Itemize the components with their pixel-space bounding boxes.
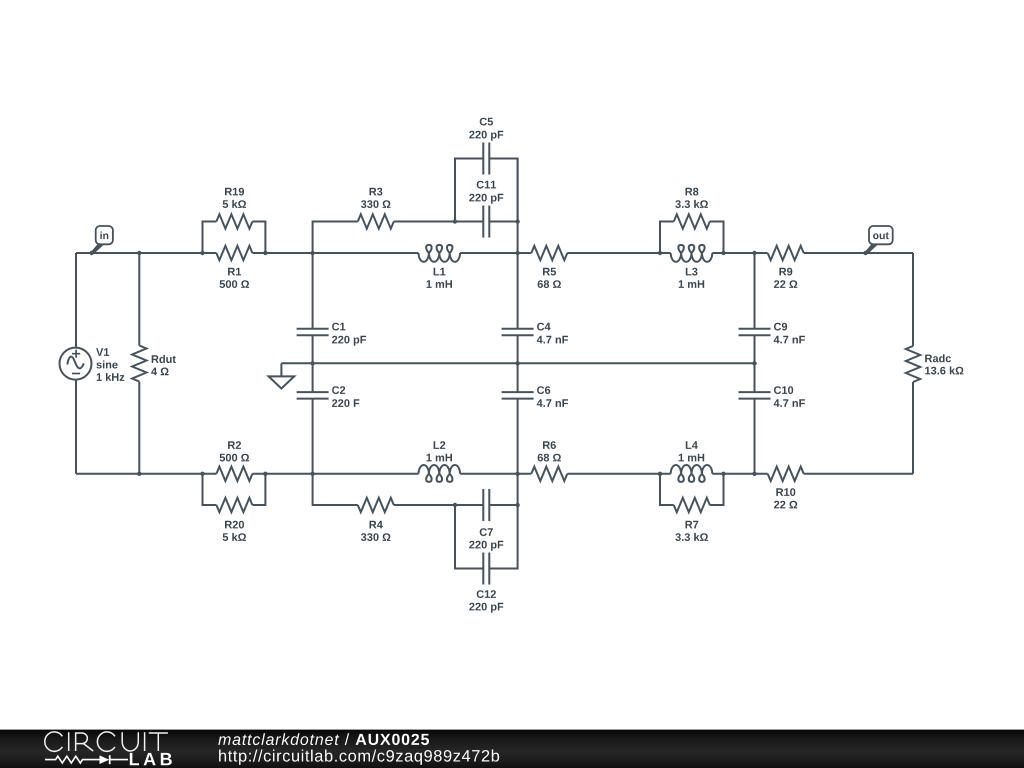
resistor R2 bbox=[216, 467, 252, 481]
label R5 68 Ω bbox=[538, 268, 561, 288]
wire bbox=[804, 252, 913, 254]
wire bbox=[460, 473, 531, 475]
label C7 220 pF bbox=[469, 528, 503, 551]
wire bbox=[489, 505, 517, 569]
junction bbox=[310, 472, 314, 476]
junction bbox=[200, 251, 204, 255]
CircuitLab logo bbox=[45, 732, 172, 765]
label R20 5 kΩ bbox=[223, 521, 246, 541]
junction bbox=[721, 472, 725, 476]
label R9 22 Ω bbox=[774, 268, 797, 288]
wire bbox=[660, 222, 674, 254]
ground bbox=[269, 363, 295, 388]
junction bbox=[515, 361, 519, 365]
junction bbox=[263, 251, 267, 255]
capacitor C2 bbox=[297, 392, 329, 399]
resistor R3 bbox=[358, 214, 394, 228]
wire bbox=[489, 221, 517, 223]
resistor Radc bbox=[906, 346, 920, 382]
wire bbox=[912, 253, 914, 346]
bar title mattclarkdotnet / AUX0025 bbox=[218, 733, 429, 745]
junction bbox=[310, 251, 314, 255]
capacitor C5 bbox=[483, 143, 489, 175]
wire bbox=[76, 252, 216, 254]
wire bbox=[252, 222, 265, 254]
wire bbox=[252, 252, 418, 254]
label C12 220 pF bbox=[469, 590, 503, 613]
junction bbox=[863, 251, 867, 255]
label C5 220 pF bbox=[469, 118, 503, 141]
resistor R6 bbox=[531, 467, 567, 481]
resistor R4 bbox=[358, 498, 394, 512]
wire bbox=[489, 159, 517, 222]
wire bbox=[710, 222, 724, 254]
label L1 1 mH bbox=[427, 268, 453, 288]
capacitor C6 bbox=[502, 392, 534, 399]
capacitor C7 bbox=[483, 489, 489, 521]
resistor R10 bbox=[768, 467, 804, 481]
wire bbox=[394, 221, 484, 223]
wire bbox=[754, 399, 756, 474]
label L2 1 mH bbox=[427, 441, 453, 461]
wire bbox=[567, 252, 670, 254]
wire bbox=[76, 473, 216, 475]
wire bbox=[138, 382, 140, 474]
inductor L3 bbox=[671, 245, 713, 262]
node in flag bbox=[91, 226, 113, 255]
wire bbox=[660, 474, 674, 505]
resistor R7 bbox=[674, 498, 710, 512]
wire bbox=[138, 253, 140, 346]
inductor L2 bbox=[419, 465, 461, 482]
wire bbox=[455, 159, 483, 222]
junction bbox=[721, 251, 725, 255]
label R3 330 Ω bbox=[361, 188, 391, 208]
junction bbox=[515, 472, 519, 476]
wire bbox=[252, 473, 418, 475]
wire bbox=[313, 474, 358, 505]
label R8 3.3 kΩ bbox=[675, 188, 708, 208]
wire bbox=[517, 399, 519, 505]
junction bbox=[200, 472, 204, 476]
wire bbox=[252, 474, 265, 505]
label R1 500 Ω bbox=[220, 268, 250, 288]
label V1 sine 1 kHz bbox=[96, 348, 124, 381]
wire bbox=[804, 473, 913, 475]
wire bbox=[312, 399, 314, 474]
label C4 4.7 nF bbox=[537, 323, 568, 344]
label C9 4.7 nF bbox=[774, 323, 805, 344]
resistor R8 bbox=[674, 214, 710, 228]
wire bbox=[281, 362, 754, 364]
wire bbox=[75, 253, 77, 348]
junction bbox=[89, 251, 93, 255]
bar url bbox=[219, 750, 499, 765]
resistor R20 bbox=[216, 498, 252, 512]
wire bbox=[203, 222, 217, 254]
wire bbox=[912, 382, 914, 474]
wire bbox=[394, 504, 484, 506]
junction bbox=[515, 503, 519, 507]
capacitor C4 bbox=[502, 329, 534, 336]
resistor R1 bbox=[216, 246, 252, 260]
wire bbox=[754, 335, 756, 392]
label Rdut 4 Ω bbox=[151, 355, 176, 375]
capacitor C10 bbox=[739, 392, 771, 399]
junction bbox=[752, 472, 756, 476]
wire bbox=[712, 252, 767, 254]
junction bbox=[453, 219, 457, 223]
wire bbox=[312, 335, 314, 392]
junction bbox=[515, 219, 519, 223]
voltage source V1 bbox=[60, 348, 92, 380]
label C1 220 pF bbox=[332, 323, 366, 346]
junction bbox=[137, 251, 141, 255]
label R10 22 Ω bbox=[774, 488, 797, 508]
wire bbox=[489, 504, 517, 506]
label L4 1 mH bbox=[679, 441, 705, 461]
capacitor C12 bbox=[483, 553, 489, 585]
junction bbox=[752, 251, 756, 255]
wire bbox=[460, 252, 531, 254]
label C10 4.7 nF bbox=[774, 386, 805, 407]
label C2 220 F bbox=[332, 386, 359, 407]
wire bbox=[712, 473, 767, 475]
wire bbox=[455, 505, 483, 569]
label L3 1 mH bbox=[679, 268, 705, 288]
resistor R19 bbox=[216, 214, 252, 228]
wire bbox=[313, 222, 358, 254]
label R7 3.3 kΩ bbox=[675, 521, 708, 541]
resistor R9 bbox=[768, 246, 804, 260]
junction bbox=[515, 251, 519, 255]
junction bbox=[752, 361, 756, 365]
wire bbox=[203, 474, 217, 505]
wire bbox=[567, 473, 670, 475]
capacitor C1 bbox=[297, 329, 329, 336]
capacitor C11 bbox=[483, 206, 489, 238]
capacitor C9 bbox=[739, 329, 771, 336]
inductor L4 bbox=[671, 465, 713, 482]
wire bbox=[710, 474, 724, 505]
junction bbox=[453, 503, 457, 507]
wire bbox=[754, 253, 756, 329]
resistor Rdut bbox=[132, 346, 146, 382]
label R19 5 kΩ bbox=[223, 188, 246, 208]
junction bbox=[137, 472, 141, 476]
wire bbox=[517, 159, 519, 329]
wire bbox=[312, 253, 314, 329]
junction bbox=[658, 251, 662, 255]
label R6 68 Ω bbox=[538, 441, 561, 461]
inductor L1 bbox=[419, 245, 461, 262]
resistor R5 bbox=[531, 246, 567, 260]
bottom bar bbox=[0, 730, 1024, 768]
wire bbox=[517, 335, 519, 392]
label C6 4.7 nF bbox=[537, 386, 568, 407]
label C11 220 pF bbox=[469, 181, 503, 204]
node out flag bbox=[865, 226, 893, 255]
label R4 330 Ω bbox=[361, 521, 391, 541]
junction bbox=[658, 472, 662, 476]
junction bbox=[310, 361, 314, 365]
label R2 500 Ω bbox=[220, 441, 250, 461]
wire bbox=[75, 380, 77, 474]
junction bbox=[263, 472, 267, 476]
label Radc 13.6 kΩ bbox=[925, 354, 963, 374]
